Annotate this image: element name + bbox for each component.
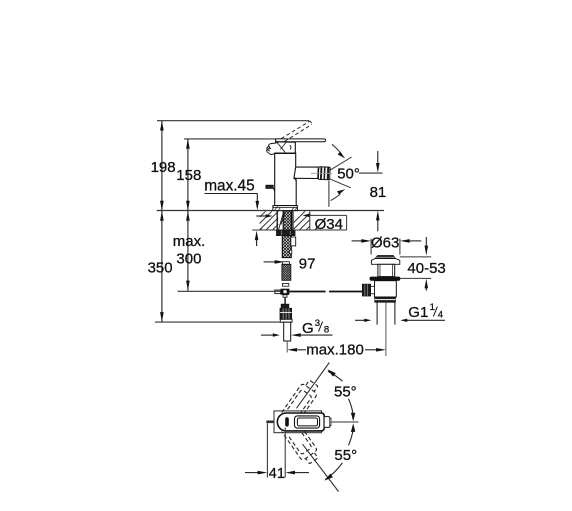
drain tail pipe G1 1/4	[376, 302, 378, 325]
50 degree upper arc arrow	[332, 144, 342, 154]
clamping wedge	[279, 212, 284, 230]
svg-text:Ø63: Ø63	[371, 234, 399, 251]
97 arrow	[264, 261, 276, 263]
centerline tick below pipe	[286, 341, 288, 353]
81 top reference tick	[359, 172, 383, 174]
hole edges	[276, 211, 278, 230]
faucet lever blade (side view)	[276, 139, 326, 142]
arrow max300 bottom	[186, 281, 190, 291]
side fitting on shank	[291, 237, 296, 246]
tee lower neck	[283, 295, 287, 297]
Ø63 extension lines	[370, 239, 372, 255]
dimension line 198/350	[161, 121, 163, 322]
plan lever window	[295, 416, 320, 428]
max45 drop line + arrow to countertop	[256, 194, 258, 204]
svg-text:G: G	[302, 320, 314, 337]
81 dimension line bottom	[377, 218, 379, 231]
Ø34 leader line	[309, 214, 347, 216]
counter slab hatch right block	[294, 211, 310, 230]
plan left stub	[266, 421, 274, 424]
svg-text:50°: 50°	[337, 165, 360, 182]
counter slab hatch left block	[260, 211, 279, 230]
arrow 198 bottom	[160, 201, 164, 211]
arrow 158 bottom	[186, 201, 190, 211]
drain dome cap	[375, 255, 395, 258]
40-53 dimension	[425, 237, 427, 248]
55 lower ray	[303, 444, 339, 491]
dashed lever rotated down 55	[282, 421, 322, 467]
threaded shank below nut	[282, 236, 291, 258]
drain centerline	[385, 302, 387, 356]
arrow 350 bottom	[160, 312, 164, 322]
rod down to connector	[284, 297, 286, 304]
55 arc segments	[328, 371, 343, 381]
G3/8 connector dark block	[281, 304, 289, 308]
flexible hose (braided)	[282, 264, 291, 280]
arrow 198 top	[160, 121, 164, 131]
horizontal rod line (left thin)	[178, 290, 281, 292]
svg-text:97: 97	[299, 255, 316, 272]
Ø34 arrows	[256, 215, 266, 217]
svg-text:max.180: max.180	[306, 342, 364, 359]
Ø63 dimension	[352, 240, 363, 242]
svg-text:40-53: 40-53	[407, 260, 445, 277]
drain bottom cap	[375, 297, 396, 302]
plan centerline to arc	[331, 421, 358, 423]
base flange	[273, 206, 298, 211]
pull-rod knob on body	[266, 185, 273, 188]
50 degree lower ray	[330, 179, 351, 188]
350 bottom reference line	[155, 321, 292, 323]
svg-text:55°: 55°	[334, 384, 357, 401]
G1 1/4 dimension	[355, 319, 365, 321]
svg-text:G1: G1	[408, 304, 428, 321]
faucet body	[275, 153, 297, 205]
rod from tee to drain knob	[289, 291, 325, 293]
svg-text:158: 158	[176, 167, 201, 184]
50 degree lower arc arrow	[331, 194, 341, 201]
svg-text:350: 350	[148, 260, 173, 277]
max180 dimension	[287, 348, 297, 352]
drain collar	[371, 259, 399, 265]
arrow 350 top	[160, 211, 164, 221]
svg-text:max.45: max.45	[204, 178, 254, 195]
tee body	[281, 289, 290, 295]
max45 lower arrow (under slab)	[256, 238, 258, 246]
svg-text:3: 3	[315, 318, 320, 329]
dashed lever rotated up 55	[282, 378, 322, 424]
connector white nut	[280, 319, 292, 322]
spout tube	[294, 167, 318, 178]
55 upper ray	[297, 363, 330, 409]
svg-text:41: 41	[269, 466, 285, 482]
hose bottom collar	[282, 283, 288, 286]
countertop surface line	[157, 210, 384, 212]
41 extension lines	[266, 423, 268, 477]
G3/8 dimension arrows	[261, 334, 273, 336]
svg-text:1: 1	[430, 302, 435, 313]
svg-text:4: 4	[438, 310, 443, 321]
tee left stub	[275, 290, 281, 294]
41 dimension	[245, 472, 259, 474]
aerator	[318, 167, 330, 180]
svg-text:300: 300	[176, 250, 201, 267]
knob link	[371, 286, 375, 294]
G3/8 connector ribbed	[280, 308, 292, 319]
flexible hose top collar	[283, 262, 290, 265]
plan body stadium	[277, 413, 324, 431]
mounting shank through counter (threaded)	[283, 211, 291, 231]
arrow max300 top	[186, 211, 190, 221]
plan slot	[285, 417, 289, 426]
dimension line 158/max300	[187, 139, 189, 291]
svg-text:198: 198	[151, 159, 176, 176]
drain rod knob	[362, 284, 370, 296]
svg-text:max.: max.	[173, 233, 206, 250]
svg-text:55°: 55°	[334, 447, 357, 464]
svg-text:8: 8	[324, 324, 329, 335]
dashed raised lever	[281, 121, 310, 138]
svg-text:81: 81	[370, 184, 387, 201]
G3/8 pipe	[284, 322, 291, 341]
mounting nut	[277, 231, 296, 236]
plan aerator stub	[325, 417, 330, 428]
arc arrowheads	[327, 369, 335, 376]
arrow 158 top	[186, 139, 190, 149]
drain neck	[378, 264, 395, 276]
svg-text:Ø34: Ø34	[315, 216, 343, 233]
extension line (158 ref)	[184, 138, 277, 140]
slab bottom line	[252, 229, 346, 231]
aerator vertical extension	[328, 181, 330, 207]
lever hub	[276, 142, 296, 153]
50 degree upper ray	[330, 157, 352, 170]
drain body	[375, 281, 397, 297]
81 dimension line top	[377, 151, 379, 165]
plan escutcheon rect	[274, 411, 322, 433]
drain flange (black)	[370, 277, 401, 281]
hub sketch curls	[267, 143, 277, 155]
extension line top (198 ref)	[157, 120, 309, 122]
